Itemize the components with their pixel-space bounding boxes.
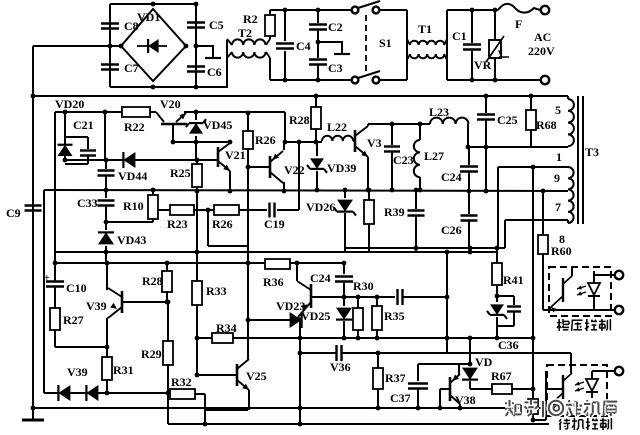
wire left bus vertical bbox=[32, 46, 34, 408]
wire V24 collector bbox=[296, 263, 298, 281]
resistor R37 bbox=[377, 353, 379, 368]
wire VD20 C21 bottom link bbox=[65, 163, 88, 165]
wire y160 VD44 row bbox=[106, 159, 218, 161]
wire VD23 row y320 bbox=[248, 319, 300, 321]
node C24 mid top bbox=[342, 261, 347, 266]
svg-text:R67: R67 bbox=[491, 369, 512, 383]
wire top rail of bridge bbox=[110, 3, 196, 5]
svg-text:C2: C2 bbox=[328, 20, 343, 34]
wire y252 long bbox=[55, 251, 497, 253]
opto2 light arrows bbox=[575, 382, 584, 385]
wire y263 left bbox=[55, 262, 265, 264]
svg-text:VD45: VD45 bbox=[203, 118, 232, 132]
terminal opto1 bottom bbox=[615, 306, 623, 314]
wire pin8 horizontal bbox=[505, 219, 568, 221]
node VD26 top bbox=[343, 188, 348, 193]
capacitor C21 bbox=[87, 137, 89, 149]
opto2 collector up to bus bbox=[570, 353, 572, 373]
opto1 light arrows bbox=[577, 286, 586, 289]
node C1 bottom bbox=[470, 78, 475, 83]
node C2 C3 mid bbox=[316, 40, 321, 45]
zener diode VD26 bbox=[344, 190, 346, 198]
diode V39b bbox=[86, 385, 98, 401]
wire node65 to x106 bbox=[65, 159, 106, 161]
inductor L27 vertical bbox=[419, 124, 421, 140]
svg-text:R26: R26 bbox=[255, 133, 276, 147]
resistor R41 bbox=[492, 263, 502, 285]
svg-text:C23: C23 bbox=[393, 153, 414, 167]
node C5 top rail bbox=[194, 2, 199, 7]
resistor R67 bbox=[492, 384, 512, 394]
wire box left side x55 bbox=[54, 112, 56, 282]
resistor R26 upper bbox=[247, 113, 249, 131]
wire V20 emitter to rail bbox=[184, 111, 196, 113]
svg-text:R35: R35 bbox=[384, 309, 405, 323]
node R39 top bbox=[367, 188, 372, 193]
varistor VR bbox=[494, 10, 496, 40]
transistor V39 bbox=[121, 291, 124, 313]
optocoupler box standby bbox=[547, 365, 607, 416]
node x497 y338 bbox=[495, 336, 500, 341]
node y263 x55 bbox=[53, 261, 58, 266]
node mid1 top bbox=[414, 188, 419, 193]
terminal AC bottom bbox=[541, 76, 549, 84]
diode VD20 bbox=[58, 145, 73, 156]
svg-text:AC: AC bbox=[534, 30, 551, 44]
svg-text:R37: R37 bbox=[385, 371, 406, 385]
node V3 emitter bus bbox=[366, 188, 371, 193]
svg-text:C26: C26 bbox=[441, 223, 462, 237]
switch S1 bottom bbox=[352, 77, 359, 84]
wire S1 to T1 bottom bbox=[380, 79, 407, 81]
node left bus rail bbox=[31, 94, 36, 99]
svg-text:R33: R33 bbox=[206, 284, 227, 298]
wire y338 long bbox=[197, 337, 212, 339]
wire V21 collector bbox=[229, 142, 231, 143]
svg-text:T3: T3 bbox=[585, 145, 599, 159]
transistor V24 bbox=[310, 284, 313, 308]
svg-text:VD: VD bbox=[475, 355, 493, 369]
wire L23 right down bbox=[467, 124, 469, 147]
svg-text:R27: R27 bbox=[63, 313, 84, 327]
node pin1 left bbox=[466, 145, 471, 150]
node C2 top bbox=[316, 8, 321, 13]
wire bridge left side bbox=[109, 4, 111, 87]
transformer T3 core bbox=[577, 96, 579, 224]
node C23 bottom bbox=[390, 188, 395, 193]
node y408 x440 bbox=[438, 406, 443, 411]
node x106 y190 bbox=[104, 188, 109, 193]
node y263 x248 bbox=[246, 261, 251, 266]
diode VD44 bbox=[123, 152, 135, 168]
svg-text:+: + bbox=[44, 273, 50, 284]
opto1 wire bottom bbox=[543, 309, 615, 311]
node R41 bottom bbox=[495, 294, 500, 299]
wire pin9 column bbox=[497, 167, 499, 248]
svg-text:C21: C21 bbox=[73, 118, 94, 132]
node x300 y353 bbox=[298, 351, 303, 356]
node y364 x470 bbox=[468, 362, 473, 367]
fuse F bbox=[498, 4, 540, 13]
svg-text:V22: V22 bbox=[284, 163, 305, 177]
wire V24 emitter bbox=[298, 317, 300, 320]
wire rail to corner 285 bbox=[248, 111, 285, 113]
wire box top y112 left part bbox=[55, 111, 122, 113]
node V22 collector bus bbox=[282, 189, 287, 194]
node pin1 drop bottom bbox=[484, 189, 489, 194]
opto1 collector stub bbox=[571, 267, 573, 276]
capacitor C8 bbox=[101, 22, 119, 24]
svg-text:VR: VR bbox=[474, 58, 492, 72]
wire pair bottom bbox=[497, 325, 514, 327]
wire V38 collector up bbox=[458, 364, 460, 374]
svg-text:VD1: VD1 bbox=[137, 10, 160, 24]
resistor R28 lower bbox=[166, 263, 168, 271]
node R25 junction bbox=[195, 158, 200, 163]
svg-text:R2: R2 bbox=[243, 12, 258, 26]
wire V22 base link bbox=[248, 166, 270, 168]
svg-text:VD25: VD25 bbox=[301, 309, 330, 323]
zener diode VD41area bbox=[496, 296, 498, 302]
ground stub near C3 bbox=[318, 42, 342, 53]
capacitor C26 bbox=[468, 191, 470, 214]
wire bridge right side bbox=[195, 4, 197, 87]
resistor R34 bbox=[212, 333, 233, 343]
wire V21 emitter down bbox=[229, 171, 231, 191]
node C25 top bbox=[484, 94, 489, 99]
node R10 top bbox=[151, 188, 156, 193]
node V21 emitter bus bbox=[228, 189, 233, 194]
node y408 x418 bbox=[416, 406, 421, 411]
resistor R32 bbox=[170, 389, 195, 399]
ground symbol bbox=[32, 408, 34, 419]
resistor R30 box bbox=[357, 297, 359, 308]
wire V3 collector up bbox=[367, 124, 369, 126]
node R26 top bbox=[246, 111, 251, 116]
wire T1 right side bbox=[446, 10, 448, 80]
wire L22 to V3 base bbox=[353, 140, 355, 142]
resistor R68 bbox=[530, 96, 532, 110]
node tap R60 bbox=[541, 189, 546, 194]
wire y297 bbox=[311, 296, 344, 298]
transistor V38 bbox=[449, 377, 452, 401]
wire x546 vertical bbox=[545, 371, 547, 420]
svg-text:9: 9 bbox=[554, 171, 560, 185]
wire R10 bottom to C33 bbox=[106, 221, 153, 223]
wire from bridge left to left bus bbox=[33, 45, 121, 47]
wire x196 between 142 and 160 bbox=[195, 142, 197, 160]
node L27 top bbox=[418, 122, 423, 127]
transistor V22 bbox=[269, 156, 272, 178]
capacitor C3 bbox=[309, 58, 327, 60]
node VD39 bottom bbox=[315, 188, 320, 193]
capacitor C33 bbox=[98, 199, 115, 201]
svg-text:C10: C10 bbox=[66, 281, 87, 295]
wire bus y191 long to T3 tap bbox=[44, 190, 568, 191]
wire R41 pair top bbox=[497, 295, 514, 297]
node x344 y338 bbox=[342, 336, 347, 341]
svg-text:V20: V20 bbox=[160, 97, 181, 111]
node bridge left bbox=[119, 44, 124, 49]
svg-text:V39: V39 bbox=[67, 365, 88, 379]
svg-text:R68: R68 bbox=[536, 118, 557, 132]
wire V20 base down bbox=[172, 124, 174, 142]
capacitor C10 bbox=[54, 263, 56, 279]
capacitor mid1 bbox=[415, 190, 417, 209]
wire V25 base bbox=[197, 374, 237, 376]
svg-text:VD26: VD26 bbox=[306, 200, 335, 214]
svg-text:V36: V36 bbox=[330, 360, 351, 374]
svg-text:V38: V38 bbox=[455, 393, 476, 407]
transistor V20 bbox=[156, 112, 164, 122]
small resistor bottom right bbox=[528, 399, 538, 414]
wire bridge bottom rail bbox=[110, 86, 228, 88]
svg-text:L27: L27 bbox=[424, 149, 444, 163]
wire V39 collector column bbox=[106, 263, 108, 290]
resistor R2 bbox=[265, 15, 275, 36]
wire T1 left side bbox=[406, 10, 408, 80]
resistor R25 bbox=[196, 160, 198, 164]
node VD20 bottom bbox=[63, 158, 68, 163]
wire diode row y393 bbox=[44, 392, 170, 394]
wire bottom bus y424 bbox=[168, 423, 549, 425]
svg-text:VD20: VD20 bbox=[55, 97, 84, 111]
wire R33 column to base bbox=[196, 338, 198, 375]
opto2 wire to terminal bbox=[592, 370, 615, 372]
node R30 top bbox=[356, 295, 361, 300]
wire y364 V38 area bbox=[418, 363, 470, 365]
node y424 x300 bbox=[298, 422, 303, 427]
zener diode VD43 bbox=[105, 222, 107, 230]
wire y410 V25 emitter bbox=[205, 409, 248, 411]
capacitor C6 bbox=[187, 65, 205, 67]
terminal opto1 top bbox=[615, 271, 623, 279]
wire VD20 column bbox=[64, 112, 66, 140]
svg-text:R39: R39 bbox=[384, 205, 405, 219]
wire y248 bbox=[344, 247, 505, 249]
wire R23 to R26b bbox=[194, 209, 214, 211]
node V21 collector bbox=[228, 140, 233, 145]
svg-text:C24: C24 bbox=[441, 170, 462, 184]
wire V38 emitter down bbox=[459, 404, 461, 408]
transistor V25 bbox=[236, 364, 239, 386]
svg-text:C1: C1 bbox=[452, 29, 467, 43]
node C25 pin1 bbox=[484, 145, 489, 150]
svg-text:F: F bbox=[515, 17, 522, 31]
svg-text:C5: C5 bbox=[209, 18, 224, 32]
node diode row x107 bbox=[105, 391, 110, 396]
wire corner x285 down bbox=[284, 112, 286, 142]
node y338 x300 bbox=[298, 336, 303, 341]
opto2 transistor bbox=[562, 375, 564, 399]
svg-text:220V: 220V bbox=[528, 44, 555, 58]
node VD23 row right bbox=[298, 318, 303, 323]
svg-text:C3: C3 bbox=[328, 61, 343, 75]
node y263 x167 bbox=[165, 261, 170, 266]
wire R32 right bbox=[195, 393, 205, 395]
svg-text:8: 8 bbox=[559, 232, 565, 246]
node y263 x106 bbox=[105, 261, 110, 266]
node R68 top bbox=[529, 94, 534, 99]
wire main rail y96 bbox=[33, 95, 568, 97]
svg-text:1: 1 bbox=[556, 150, 562, 164]
capacitor C5 bbox=[187, 21, 205, 23]
svg-text:R28: R28 bbox=[289, 113, 310, 127]
resistor R31 bbox=[106, 347, 108, 357]
node V20 base bottom bbox=[171, 140, 176, 145]
node C3 bottom bbox=[316, 78, 321, 83]
wire rail 196 to 248 bbox=[196, 111, 248, 113]
wire y124 V3 to L23 bbox=[368, 123, 430, 125]
wire T2 left lead bbox=[226, 40, 228, 87]
svg-text:VD44: VD44 bbox=[118, 169, 147, 183]
node VD top bbox=[468, 336, 473, 341]
node R35 bottom bbox=[375, 336, 380, 341]
node y424 x205 bbox=[203, 422, 208, 427]
svg-text:R60: R60 bbox=[551, 244, 572, 258]
node y252 x197 bbox=[195, 250, 200, 255]
svg-text:C25: C25 bbox=[497, 113, 518, 127]
node R35 top bbox=[375, 295, 380, 300]
wire x44 vertical bbox=[43, 190, 45, 393]
node C1 top bbox=[470, 8, 475, 13]
opto2 led bbox=[586, 379, 598, 391]
svg-text:R23: R23 bbox=[167, 217, 188, 231]
svg-text:R36: R36 bbox=[263, 275, 284, 289]
svg-text:V21: V21 bbox=[225, 148, 246, 162]
wire V38 base left bbox=[440, 388, 450, 390]
node bridge top bbox=[151, 2, 156, 7]
svg-text:R31: R31 bbox=[113, 363, 134, 377]
wire V25 collector up bbox=[247, 320, 249, 359]
capacitor C24 mid bbox=[343, 263, 345, 274]
resistor R27 bbox=[50, 308, 60, 330]
svg-text:C9: C9 bbox=[6, 206, 21, 220]
svg-text:R30: R30 bbox=[353, 279, 374, 293]
capacitor C25 bbox=[485, 96, 487, 113]
svg-text:C19: C19 bbox=[264, 217, 285, 231]
svg-text:V39: V39 bbox=[86, 299, 107, 313]
node R29 top bbox=[166, 300, 171, 305]
svg-text:S1: S1 bbox=[379, 36, 392, 50]
capacitor C9 bbox=[25, 204, 42, 206]
opto1 wire to top terminal bbox=[594, 274, 615, 276]
capacitor C7 bbox=[101, 63, 119, 65]
svg-text:R22: R22 bbox=[124, 120, 145, 134]
node R67 right bbox=[531, 387, 536, 392]
wire V25 emitter down bbox=[248, 390, 250, 410]
wire S1 to T1 top bbox=[380, 9, 407, 11]
wire x447 column bbox=[446, 252, 448, 353]
wire after R22 bbox=[150, 111, 156, 113]
diode V39a bbox=[58, 385, 70, 401]
opto1 led bbox=[588, 283, 600, 295]
svg-text:5: 5 bbox=[555, 103, 561, 117]
capacitor C23 bbox=[391, 124, 393, 145]
svg-text:C24: C24 bbox=[310, 271, 331, 285]
node R33 wire y338 bbox=[195, 336, 200, 341]
wire R60 to opto bbox=[543, 309, 556, 311]
wire VD20 C21 top link bbox=[65, 136, 88, 138]
capacitor V36 bbox=[335, 345, 337, 361]
svg-text:R26: R26 bbox=[212, 217, 233, 231]
node C23 top bbox=[390, 122, 395, 127]
wire x300 vertical bbox=[299, 320, 301, 424]
switch S1 link dashed bbox=[365, 15, 367, 75]
terminal AC top bbox=[541, 6, 549, 14]
node VR top bbox=[493, 8, 498, 13]
wire y142 V20 to VD45 bbox=[173, 141, 196, 143]
node VD20 top bbox=[63, 110, 68, 115]
wire R27 bottom row bbox=[55, 346, 107, 348]
wire pin1 horizontal bbox=[468, 146, 568, 148]
label standby control bbox=[559, 419, 561, 421]
node x106 y160 bbox=[104, 158, 109, 163]
wire bottom rail right section bbox=[270, 79, 352, 81]
node C4 top bbox=[283, 8, 288, 13]
svg-text:C6: C6 bbox=[207, 65, 222, 79]
resistor R33 bbox=[196, 252, 198, 281]
node x447 y297 bbox=[445, 295, 450, 300]
node C4 bottom bbox=[283, 78, 288, 83]
ground stub near C6 bbox=[196, 46, 213, 57]
node bridge left rail cross bbox=[108, 44, 113, 49]
svg-text:VD39: VD39 bbox=[327, 161, 356, 175]
inductor L22 bbox=[322, 136, 353, 141]
wire T2 bottom to bottom rail bbox=[269, 58, 271, 80]
wire R67 right bbox=[512, 388, 533, 390]
node V24 collector bbox=[295, 261, 300, 266]
wire V39 emitter down bbox=[107, 317, 108, 319]
node y408 x33 bbox=[31, 406, 36, 411]
wire bus y353 bbox=[300, 352, 336, 354]
wire y142 to L22 bbox=[284, 141, 322, 143]
wire R25 column down bbox=[196, 191, 198, 252]
resistor R26 lower bbox=[214, 205, 239, 215]
wire y142 to V21 bbox=[196, 141, 230, 143]
transformer T2 bbox=[232, 39, 266, 45]
capacitor coupling y297 bbox=[396, 289, 398, 305]
resistor R23 bbox=[158, 209, 170, 211]
capacitor C24 right column bbox=[468, 147, 470, 165]
wire y420 to box bbox=[533, 419, 546, 421]
wire pin1 to winding bbox=[567, 145, 569, 147]
svg-text:R25: R25 bbox=[170, 166, 191, 180]
capacitor above C33 bbox=[105, 160, 107, 169]
transformer T3 winding upper bbox=[567, 96, 569, 99]
node bridge bottom bbox=[151, 85, 156, 90]
node R26 bottom bbox=[246, 165, 251, 170]
node x447 y338 bbox=[445, 336, 450, 341]
node C33 bottom bbox=[104, 220, 109, 225]
node C6 bottom rail bbox=[194, 85, 199, 90]
wire pin8 drop bbox=[504, 220, 506, 248]
svg-text:VD43: VD43 bbox=[117, 233, 146, 247]
wire y297 to corner bbox=[403, 296, 447, 298]
wire V39 base right bbox=[122, 301, 167, 303]
wire x533 long column bbox=[532, 167, 534, 399]
node R28 rail bbox=[314, 94, 319, 99]
optocoupler box stabilize bbox=[549, 267, 611, 316]
node y248 x416 bbox=[414, 246, 419, 251]
node VD45 top bbox=[194, 110, 199, 115]
node C19 top bbox=[297, 140, 302, 145]
inductor L23 bbox=[430, 118, 468, 124]
node y252 x470 bbox=[468, 250, 473, 255]
wire x533 lower link bbox=[532, 414, 534, 420]
node V25 base bbox=[195, 373, 200, 378]
wire T1 to C1 top bbox=[447, 9, 498, 11]
